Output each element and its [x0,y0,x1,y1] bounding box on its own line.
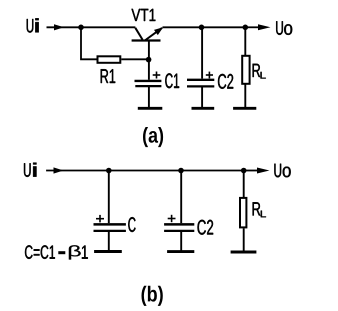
label Ui (a) [27,19,34,33]
caption (b) [142,286,163,306]
wire emitter rail (a) [163,26,246,28]
wire input (a) [47,26,82,28]
resistor R1 [98,56,121,63]
arrowhead output (b) [257,168,270,174]
formula C=C1 part [25,245,55,259]
wire output (a) [245,26,261,28]
wire output (b) [244,170,260,172]
wire C2 down (a) [201,27,203,78]
arrowhead output (a) [258,24,271,30]
node C2 top (a) [199,25,205,31]
label C2 (b) [198,220,214,235]
capacitor C1 [135,72,162,87]
ground bar under RL (a) [233,107,256,110]
label Uo (a) [276,21,283,35]
label Uo (b) [274,164,281,178]
ground bar under RL (b) [231,251,257,254]
wire RL bottom (a) [244,84,246,107]
wire C2 to ground (a) [201,87,203,107]
wire rail to collector (a) [81,26,135,28]
wire C to ground (b) [108,232,110,251]
node base R1 C1 junction [146,57,152,63]
transistor VT1 [132,27,164,40]
node input junction (a) [78,25,84,31]
capacitor C [94,215,126,231]
resistor RL (b) [240,198,246,228]
caption (a) [143,127,163,147]
capacitor C2 (b) [164,215,194,231]
label Ui (b) [24,163,31,177]
wire RL top (b) [243,171,245,198]
wire C down (b) [108,171,110,224]
arrowhead input (a) [54,24,64,30]
node C2 top (b) [178,168,184,174]
wire base down to C1 [148,42,150,80]
label VT1 [132,9,156,21]
label RL (b) [253,202,261,215]
wire RL top (a) [244,27,246,55]
wire C2 to ground (b) [180,232,182,251]
formula trailing 1 [82,246,88,259]
formula beta [69,245,81,259]
node C top (b) [106,168,112,174]
capacitor C2 (a) [187,72,214,87]
formula dash [58,251,65,254]
wire C2 down (b) [180,171,182,224]
wire R1 to base node [121,58,149,60]
ground bar under C2 (b) [167,250,194,253]
label C1 [165,73,179,88]
ground bar under C1 [138,107,163,110]
arrowhead input (b) [54,167,64,173]
label C2 (a) [218,74,233,89]
label R1 [101,69,116,83]
ground bar under C2 (a) [192,107,215,110]
wire RL bottom (b) [243,228,245,251]
node RL top (a) [243,25,249,31]
node RL top (b) [241,168,247,174]
wire input rail (b) [46,170,244,172]
resistor RL (a) [242,56,249,84]
wire C1 to ground [148,87,150,108]
label RL (a) [253,64,261,77]
wire junction down to R1 (a) [81,27,97,59]
label C [128,217,135,232]
ground bar under C (b) [94,250,122,253]
